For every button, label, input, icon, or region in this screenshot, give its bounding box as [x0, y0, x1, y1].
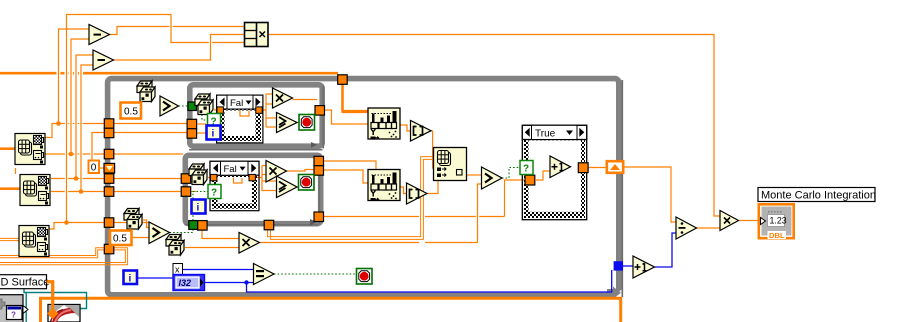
svg-text:D Surface: D Surface [1, 277, 50, 289]
svg-text:0.5: 0.5 [113, 234, 127, 245]
svg-text:1.23: 1.23 [770, 216, 787, 226]
svg-text:0: 0 [91, 163, 97, 174]
svg-text:?: ? [211, 188, 217, 199]
svg-text:0.5: 0.5 [124, 107, 138, 118]
svg-text:i: i [129, 274, 132, 285]
svg-text:i: i [212, 129, 215, 140]
svg-text:True: True [535, 129, 556, 140]
svg-text:DBL: DBL [769, 231, 785, 240]
svg-text:I32: I32 [179, 278, 192, 288]
svg-text:Fal: Fal [224, 164, 237, 175]
svg-text:x: x [175, 265, 180, 275]
svg-text:Monte Carlo Integration: Monte Carlo Integration [761, 190, 876, 202]
svg-text:?: ? [523, 164, 529, 175]
svg-text:?: ? [11, 311, 16, 320]
svg-text:i: i [197, 203, 200, 214]
svg-text:Fal: Fal [230, 98, 243, 109]
